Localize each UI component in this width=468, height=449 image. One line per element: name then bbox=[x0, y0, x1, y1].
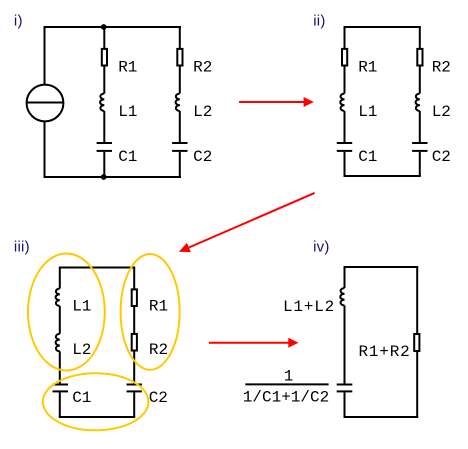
wire top i bbox=[44, 26, 182, 28]
wire L-C iv bbox=[344, 306, 346, 384]
arrow ii to iii bbox=[189, 193, 315, 248]
wire top iv bbox=[344, 266, 419, 268]
wire bottom i bbox=[44, 176, 182, 178]
wire L2-C2 ii bbox=[419, 111, 421, 142]
wire C1-bottom iii bbox=[59, 392, 61, 417]
resistor R2 ii bbox=[417, 49, 422, 66]
inductor L1+L2 bbox=[340, 288, 344, 306]
svg-text:L2: L2 bbox=[193, 103, 212, 121]
wire C2-bottom bbox=[179, 152, 181, 177]
svg-text:1: 1 bbox=[284, 368, 294, 386]
wire top iii bbox=[59, 267, 135, 269]
svg-text:C1: C1 bbox=[118, 148, 137, 166]
wire L2-C2 bbox=[179, 111, 181, 142]
wire right-top i bbox=[179, 27, 181, 50]
svg-text:i): i) bbox=[14, 13, 23, 30]
wire bottom ii bbox=[344, 175, 421, 177]
arrow iii to iv bbox=[209, 342, 290, 344]
wire top ii bbox=[344, 26, 421, 28]
svg-text:R2: R2 bbox=[149, 341, 168, 359]
wire C1-bottom ii bbox=[344, 152, 346, 176]
svg-text:C2: C2 bbox=[432, 148, 451, 166]
wire R2-L2 ii bbox=[419, 66, 421, 94]
wire left-top i bbox=[44, 26, 46, 85]
inductor L1 ii bbox=[340, 94, 344, 112]
wire L1-L2 iii bbox=[59, 306, 61, 334]
svg-text:iii): iii) bbox=[14, 238, 30, 255]
svg-text:R2: R2 bbox=[193, 58, 212, 76]
svg-text:C1: C1 bbox=[358, 148, 377, 166]
junction top bbox=[101, 24, 107, 30]
inductor L2 iii bbox=[56, 334, 60, 352]
svg-text:R1: R1 bbox=[149, 298, 168, 316]
wire R2-C2 iii bbox=[133, 351, 135, 384]
svg-text:ii): ii) bbox=[313, 13, 325, 30]
resistor R1 bbox=[102, 49, 107, 66]
resistor R2 bbox=[177, 49, 182, 66]
ellipse around R1 R2 bbox=[121, 254, 180, 370]
wire C1-bottom bbox=[103, 152, 105, 177]
resistor R2 iii bbox=[132, 334, 137, 351]
svg-text:L1+L2: L1+L2 bbox=[283, 298, 335, 316]
wire R1-R2 iii bbox=[133, 306, 135, 334]
svg-text:R1: R1 bbox=[358, 58, 377, 76]
capacitor C1 iii bbox=[53, 384, 69, 386]
svg-text:iv): iv) bbox=[313, 238, 330, 255]
capacitor C1 ii bbox=[337, 142, 352, 144]
wire left-top iii bbox=[59, 268, 61, 289]
svg-text:L1: L1 bbox=[118, 103, 137, 121]
capacitor C2 ii bbox=[412, 142, 427, 144]
capacitor C1 bbox=[97, 142, 112, 144]
svg-text:L1: L1 bbox=[72, 298, 91, 316]
inductor L1 bbox=[100, 94, 104, 112]
svg-text:L2: L2 bbox=[432, 103, 451, 121]
wire R-bottom iv bbox=[416, 351, 418, 417]
svg-text:C2: C2 bbox=[193, 148, 212, 166]
wire L1-C1 ii bbox=[344, 111, 346, 142]
svg-text:R1+R2: R1+R2 bbox=[359, 343, 411, 361]
resistor R1+R2 bbox=[414, 334, 419, 351]
wire L1-C1 bbox=[103, 111, 105, 142]
inductor L2 ii bbox=[416, 94, 420, 112]
wire L2-C1 iii bbox=[59, 351, 61, 383]
wire C2-bottom ii bbox=[419, 152, 421, 176]
svg-text:L1: L1 bbox=[358, 103, 377, 121]
wire C2-bottom iii bbox=[133, 392, 135, 417]
arrow i to ii bbox=[239, 101, 305, 103]
resistor R1 iii bbox=[132, 289, 137, 306]
wire right-top iii bbox=[133, 268, 135, 291]
svg-text:R2: R2 bbox=[432, 58, 451, 76]
source I1 bbox=[27, 85, 64, 122]
resistor R1 ii bbox=[342, 49, 347, 66]
wire left-bottom i bbox=[44, 121, 46, 178]
wire bottom iii bbox=[59, 416, 135, 418]
wire bottom iv bbox=[344, 416, 419, 418]
wire R1-L1 ii bbox=[344, 66, 346, 94]
wire mid-top i bbox=[103, 27, 105, 50]
junction bottom bbox=[101, 174, 107, 180]
svg-text:C2: C2 bbox=[149, 389, 168, 407]
capacitor C2 iii bbox=[127, 384, 142, 386]
inductor L2 bbox=[176, 94, 180, 112]
wire right-top ii bbox=[419, 27, 421, 50]
svg-text:C1: C1 bbox=[72, 389, 91, 407]
capacitor Ceq bbox=[337, 384, 353, 386]
wire right-top iv bbox=[416, 267, 418, 334]
svg-text:1/C1+1/C2: 1/C1+1/C2 bbox=[243, 388, 329, 406]
ellipse around L1 L2 bbox=[28, 254, 105, 371]
fraction bar bbox=[245, 383, 328, 385]
ellipse around C1 C2 bbox=[43, 373, 149, 430]
svg-text:R1: R1 bbox=[118, 58, 137, 76]
wire C-bottom iv bbox=[344, 392, 346, 417]
capacitor C2 bbox=[172, 142, 187, 144]
wire R1-L1 bbox=[103, 66, 105, 94]
inductor L1 iii bbox=[56, 289, 60, 307]
wire left-top iv bbox=[344, 267, 346, 288]
wire R2-L2 bbox=[179, 66, 181, 94]
svg-text:L2: L2 bbox=[72, 341, 91, 359]
wire left-top ii bbox=[344, 27, 346, 50]
